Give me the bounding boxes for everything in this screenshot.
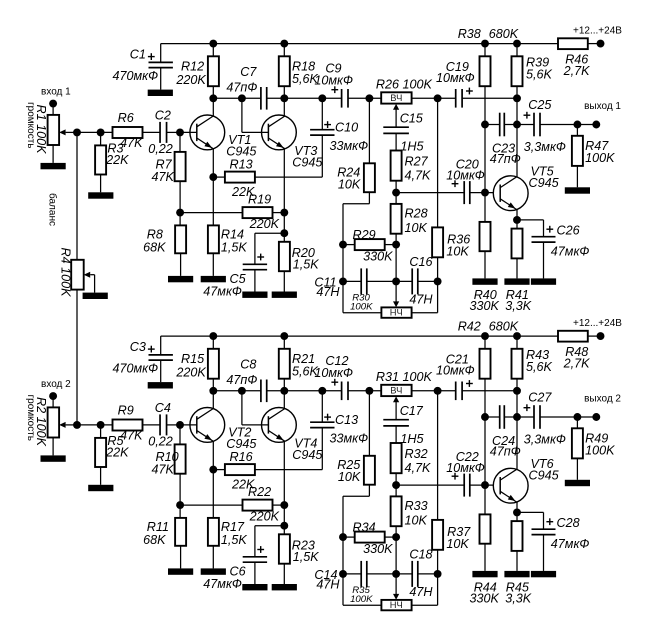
node bass row right <box>434 277 442 285</box>
resistor R16 22K <box>213 450 322 492</box>
svg-text:10мкФ: 10мкФ <box>314 366 353 380</box>
node C23 left <box>481 121 489 129</box>
svg-text:R28: R28 <box>405 207 428 221</box>
wire bass row <box>343 573 438 575</box>
resistor R43 5,6K <box>512 336 553 417</box>
node R29 right <box>392 241 400 249</box>
svg-text:R16: R16 <box>230 450 253 464</box>
transistor VT5 <box>493 165 559 211</box>
resistor R38 680K <box>458 27 519 192</box>
ground under R41 <box>504 278 529 284</box>
node VT1 collector <box>209 94 217 102</box>
node tone output <box>392 189 400 197</box>
ground under C3 <box>148 382 173 388</box>
capacitor C13 33mkF <box>310 391 368 470</box>
terminal input вход 1 <box>41 87 71 108</box>
wire row to C19 <box>412 97 456 99</box>
svg-text:R34: R34 <box>353 520 376 534</box>
capacitor C23 47pF <box>485 113 534 166</box>
svg-text:47H: 47H <box>316 285 340 299</box>
svg-text:1,5K: 1,5K <box>293 550 320 564</box>
ground under R45 <box>504 571 529 577</box>
resistor R12 220K <box>175 44 219 99</box>
resistor R42 680K <box>458 320 519 485</box>
node VT4 emitter C5 <box>280 522 288 530</box>
svg-text:R32: R32 <box>405 447 428 461</box>
svg-text:10мкФ: 10мкФ <box>314 74 353 88</box>
svg-text:2,7K: 2,7K <box>563 64 591 78</box>
node bass row left <box>339 570 347 578</box>
svg-text:10мкФ: 10мкФ <box>436 71 475 85</box>
node VT3 emitter R19 <box>280 209 288 217</box>
capacitor C24 47pF <box>485 405 534 458</box>
svg-text:47K: 47K <box>120 136 143 150</box>
svg-text:выход 1: выход 1 <box>584 101 621 112</box>
svg-text:НЧ: НЧ <box>390 307 403 318</box>
wire VT3 collector <box>283 98 285 116</box>
svg-text:C16: C16 <box>409 255 432 269</box>
terminal output выход 1 <box>584 101 621 128</box>
resistor R6 47K <box>113 111 161 150</box>
svg-text:C2: C2 <box>155 109 171 123</box>
node tone-net right top <box>434 387 442 395</box>
svg-text:330K: 330K <box>470 299 500 313</box>
svg-text:R22: R22 <box>248 485 271 499</box>
resistor R45 3,3K <box>505 521 532 606</box>
terminal +12...+24V <box>573 318 622 340</box>
capacitor C28 47mkF <box>517 512 589 571</box>
resistor R39 5,6K <box>512 44 553 125</box>
resistor R25 10K <box>337 391 375 605</box>
svg-text:+12...+24В: +12...+24В <box>573 26 622 37</box>
svg-text:10K: 10K <box>338 177 361 191</box>
svg-text:C10: C10 <box>335 121 358 135</box>
transistor VT6 <box>493 457 559 503</box>
svg-text:47K: 47K <box>152 170 175 184</box>
node VT3 emitter C5 <box>280 229 288 237</box>
wire balance column <box>76 132 78 425</box>
node R3 junction <box>97 128 105 136</box>
resistor R34 330K <box>343 520 396 556</box>
svg-text:47K: 47K <box>152 462 175 476</box>
node output junction <box>573 413 581 421</box>
node VT5 base bias <box>481 189 489 197</box>
svg-text:C4: C4 <box>155 401 171 415</box>
capacitor C8 47pF <box>226 357 266 402</box>
node VT4 collector <box>280 387 288 395</box>
svg-text:680K: 680K <box>489 320 519 334</box>
transistor VT1 <box>190 115 258 158</box>
resistor R21 5,6K <box>279 336 319 391</box>
ground at R4 wiper <box>83 293 108 299</box>
node VT4 emitter R19 <box>280 501 288 509</box>
wire +V power rail <box>161 43 601 45</box>
transistor VT2 <box>190 408 258 451</box>
node input junction <box>73 128 81 136</box>
svg-text:R19: R19 <box>248 193 271 207</box>
node feedback junction <box>176 501 184 509</box>
svg-text:R11: R11 <box>147 520 169 534</box>
capacitor C22 10mkF <box>446 450 485 497</box>
resistor R5 22K <box>95 425 129 485</box>
wire VT1 emitter <box>212 149 214 177</box>
wire input row <box>77 424 113 426</box>
wire VT3 emitter <box>283 149 285 242</box>
node C23 left <box>481 413 489 421</box>
svg-text:1H5: 1H5 <box>400 432 424 446</box>
svg-text:R8: R8 <box>147 228 163 242</box>
svg-text:C25: C25 <box>528 98 552 112</box>
capacitor C25 3,3mkF <box>524 98 597 154</box>
svg-text:C7: C7 <box>240 65 257 79</box>
svg-text:R15: R15 <box>181 352 205 366</box>
svg-text:330K: 330K <box>470 592 500 606</box>
wire tone output row <box>396 192 493 194</box>
wire input row <box>77 131 113 133</box>
ground under R49 <box>565 480 590 486</box>
svg-text:R14: R14 <box>221 228 244 242</box>
ground under R20 <box>272 292 297 298</box>
svg-text:33мкФ: 33мкФ <box>330 431 369 445</box>
wire to VT1 base <box>180 131 197 133</box>
svg-text:C13: C13 <box>335 413 358 427</box>
svg-text:R31 100K: R31 100K <box>376 370 433 384</box>
node bass row left <box>339 277 347 285</box>
svg-text:ВЧ: ВЧ <box>390 92 402 103</box>
node VT6 emitter <box>513 508 521 516</box>
svg-text:вход 1: вход 1 <box>41 87 71 98</box>
wire interstage row <box>213 390 341 392</box>
node R29 left <box>339 241 347 249</box>
svg-text:выход 2: выход 2 <box>584 394 621 405</box>
svg-text:1,5K: 1,5K <box>221 533 248 547</box>
ground under R5 <box>88 485 113 491</box>
svg-text:ВЧ: ВЧ <box>390 385 402 396</box>
svg-text:10K: 10K <box>446 245 469 259</box>
svg-text:C27: C27 <box>528 390 552 404</box>
svg-text:22K: 22K <box>105 445 129 459</box>
node tone-net right top <box>434 94 442 102</box>
svg-text:3,3K: 3,3K <box>505 592 532 606</box>
resistor R27 4,7K <box>391 151 431 193</box>
svg-text:C26: C26 <box>557 224 580 238</box>
ground under R1 <box>41 163 66 169</box>
svg-text:громкость: громкость <box>25 395 36 441</box>
node bass row mid <box>392 570 400 578</box>
svg-text:10K: 10K <box>405 221 428 235</box>
ground under R14 <box>201 276 226 282</box>
node rail junctions <box>209 332 521 340</box>
svg-text:680K: 680K <box>489 27 519 41</box>
wire VT4 emitter <box>283 441 285 534</box>
svg-text:C15: C15 <box>400 112 424 126</box>
svg-text:R42: R42 <box>458 320 481 334</box>
potentiometer R2 100K volume <box>25 395 77 456</box>
svg-text:2,7K: 2,7K <box>563 357 591 371</box>
svg-text:47H: 47H <box>409 585 433 599</box>
svg-text:47K: 47K <box>120 429 143 443</box>
svg-text:C8: C8 <box>240 357 256 371</box>
node VT2 collector <box>209 387 217 395</box>
svg-text:5,6K: 5,6K <box>526 67 553 81</box>
node output junction <box>573 121 581 129</box>
ground under R8 <box>168 276 193 282</box>
resistor R46 2,7K <box>558 38 590 78</box>
capacitor C16 47H <box>409 255 433 307</box>
svg-text:R27: R27 <box>405 155 429 169</box>
wire interstage row <box>213 97 341 99</box>
capacitor C1 470mkF <box>113 44 173 90</box>
potentiometer R30 100K bass <box>343 281 438 317</box>
wire VT5 emitter <box>516 210 518 229</box>
ground under R2 <box>41 455 66 461</box>
resistor R32 4,7K <box>391 443 431 485</box>
svg-text:10мкФ: 10мкФ <box>446 169 485 183</box>
resistor R10 47K <box>152 425 186 505</box>
node C19 to R39 <box>513 94 521 102</box>
node VT1 emitter <box>209 173 217 181</box>
wire VT4 collector <box>283 391 285 409</box>
svg-text:1,5K: 1,5K <box>221 241 248 255</box>
svg-text:47мкФ: 47мкФ <box>203 285 242 299</box>
svg-text:R26 100K: R26 100K <box>376 78 433 92</box>
resistor R28 10K <box>391 193 428 282</box>
svg-text:47пФ: 47пФ <box>226 80 257 94</box>
svg-text:3,3мкФ: 3,3мкФ <box>524 432 566 446</box>
transistor VT4 <box>262 408 324 463</box>
wire row to C19 <box>412 390 456 392</box>
svg-text:68K: 68K <box>143 241 166 255</box>
node tone-net left top <box>365 94 373 102</box>
resistor R15 220K <box>175 336 219 391</box>
svg-text:R9: R9 <box>118 403 134 417</box>
svg-text:4,7K: 4,7K <box>405 461 432 475</box>
svg-text:C3: C3 <box>130 340 146 354</box>
node C19 to R39 <box>513 387 521 395</box>
wire tone output row <box>396 484 493 486</box>
resistor R11 68K <box>143 505 186 568</box>
capacitor C12 10mkF <box>314 354 381 400</box>
resistor R29 330K <box>343 228 396 264</box>
svg-text:R12: R12 <box>181 59 204 73</box>
svg-text:47пФ: 47пФ <box>226 373 257 387</box>
capacitor C10 33mkF <box>310 98 368 177</box>
capacitor C27 3,3mkF <box>524 390 597 446</box>
resistor R49 100K <box>572 417 615 480</box>
resistor R44 330K <box>470 485 500 606</box>
capacitor C2 0,22 <box>148 109 180 157</box>
svg-text:470мкФ: 470мкФ <box>113 69 159 83</box>
node VT5 emitter <box>513 216 521 224</box>
svg-text:C945: C945 <box>292 448 323 462</box>
wire VT6 collector <box>516 417 518 469</box>
resistor R13 22K <box>213 157 322 199</box>
svg-text:R4 100K: R4 100K <box>58 248 72 298</box>
node bass row right <box>434 570 442 578</box>
svg-text:10мкФ: 10мкФ <box>436 363 475 377</box>
ground under C26 <box>531 278 556 284</box>
wire VT2 emitter <box>212 441 214 469</box>
svg-text:330K: 330K <box>363 249 393 263</box>
node VT3 base tap <box>238 94 246 102</box>
node base junction <box>176 421 184 429</box>
svg-text:47мкФ: 47мкФ <box>203 577 242 591</box>
ground under R3 <box>88 192 113 198</box>
resistor R41 3,3K <box>505 229 532 314</box>
ground under R47 <box>565 187 590 193</box>
potentiometer R1 100K volume <box>25 102 77 163</box>
svg-text:1H5: 1H5 <box>400 140 424 154</box>
svg-text:68K: 68K <box>143 533 166 547</box>
node tone output <box>392 481 400 489</box>
resistor R40 330K <box>470 193 500 314</box>
svg-text:R17: R17 <box>221 520 245 534</box>
ground under R40 <box>472 278 497 284</box>
node tone-net left top <box>365 387 373 395</box>
svg-text:100K: 100K <box>350 594 373 605</box>
resistor R24 10K <box>337 98 375 312</box>
resistor R8 68K <box>143 213 186 276</box>
node bass row mid <box>392 277 400 285</box>
resistor R47 100K <box>572 125 615 188</box>
resistor R7 47K <box>152 132 186 212</box>
svg-text:C945: C945 <box>292 156 323 170</box>
svg-text:вход 2: вход 2 <box>41 379 71 390</box>
wire VT2 collector <box>212 391 214 409</box>
svg-text:C945: C945 <box>529 469 560 483</box>
svg-text:100K: 100K <box>585 151 615 165</box>
resistor R18 5,6K <box>279 44 319 99</box>
node VT5 base bias <box>481 481 489 489</box>
node R29 left <box>339 533 347 541</box>
svg-text:3,3K: 3,3K <box>505 299 532 313</box>
node R3 junction <box>97 421 105 429</box>
svg-text:22K: 22K <box>105 153 129 167</box>
capacitor C11 47H <box>314 268 366 299</box>
wire VT1 collector <box>212 98 214 116</box>
svg-text:R33: R33 <box>405 499 428 513</box>
transistor VT3 <box>262 115 324 170</box>
svg-text:47мкФ: 47мкФ <box>551 537 590 551</box>
terminal output выход 2 <box>584 394 621 421</box>
capacitor C14 47H <box>314 561 366 592</box>
svg-text:R6: R6 <box>118 111 134 125</box>
terminal +12...+24V <box>573 26 622 48</box>
svg-text:R13: R13 <box>230 157 253 171</box>
svg-text:10K: 10K <box>338 470 361 484</box>
node VT5 collector <box>513 413 521 421</box>
wire to VT2 base <box>180 424 197 426</box>
capacitor C20 10mkF <box>446 158 485 205</box>
node input junction <box>73 421 81 429</box>
svg-text:R29: R29 <box>353 228 376 242</box>
node C13 top <box>318 387 326 395</box>
resistor R20 1,5K <box>279 242 319 292</box>
svg-text:47H: 47H <box>409 293 433 307</box>
svg-text:10K: 10K <box>405 513 428 527</box>
resistor R19 220K <box>180 193 284 232</box>
potentiometer R35 100K bass <box>343 574 438 610</box>
ground under C6 <box>242 584 267 590</box>
resistor R22 220K <box>180 485 284 524</box>
svg-text:10K: 10K <box>446 537 469 551</box>
svg-text:C28: C28 <box>557 516 580 530</box>
svg-text:НЧ: НЧ <box>390 599 403 610</box>
svg-text:470мкФ: 470мкФ <box>113 361 159 375</box>
svg-text:C18: C18 <box>409 548 432 562</box>
svg-text:4,7K: 4,7K <box>405 168 432 182</box>
capacitor C3 470mkF <box>113 336 173 382</box>
svg-text:47пФ: 47пФ <box>490 444 521 458</box>
resistor R14 1,5K <box>208 177 248 276</box>
capacitor C15 1H5 <box>383 112 424 154</box>
svg-text:C17: C17 <box>400 404 424 418</box>
potentiometer R31 100K treble <box>376 370 433 419</box>
wire VT5 collector <box>516 125 518 177</box>
wire +V power rail <box>161 335 601 337</box>
ground under R11 <box>168 568 193 574</box>
terminal input вход 2 <box>41 379 71 400</box>
svg-text:220K: 220K <box>249 217 280 231</box>
resistor R37 10K <box>432 391 471 574</box>
svg-text:47H: 47H <box>316 578 340 592</box>
resistor R9 47K <box>113 403 161 442</box>
resistor R3 22K <box>95 132 129 192</box>
ground under R17 <box>201 568 226 574</box>
svg-text:C1: C1 <box>130 47 146 61</box>
svg-text:+12...+24В: +12...+24В <box>573 318 622 329</box>
svg-text:330K: 330K <box>363 542 393 556</box>
resistor R17 1,5K <box>208 470 248 569</box>
potentiometer R26 100K treble <box>376 78 433 127</box>
capacitor C6 47mkF <box>203 526 284 591</box>
svg-text:баланс: баланс <box>46 193 58 226</box>
node R29 right <box>392 533 400 541</box>
svg-text:100K: 100K <box>585 444 615 458</box>
capacitor C7 47pF <box>226 65 266 110</box>
ground under R23 <box>272 584 297 590</box>
svg-text:R38: R38 <box>458 27 481 41</box>
svg-text:10мкФ: 10мкФ <box>446 461 485 475</box>
wire VT3 base <box>242 98 269 132</box>
wire VT6 emitter <box>516 502 518 521</box>
svg-text:220K: 220K <box>249 510 280 524</box>
resistor R33 10K <box>391 485 428 574</box>
wire VT4 base <box>242 391 269 425</box>
svg-text:громкость: громкость <box>25 102 36 148</box>
capacitor C19 10mkF <box>436 60 517 107</box>
svg-text:47мкФ: 47мкФ <box>551 245 590 259</box>
resistor R23 1,5K <box>279 534 319 584</box>
svg-text:C945: C945 <box>226 437 257 451</box>
svg-text:33мкФ: 33мкФ <box>330 139 369 153</box>
capacitor C21 10mkF <box>436 353 517 400</box>
capacitor C26 47mkF <box>517 220 589 279</box>
svg-text:220K: 220K <box>175 73 206 87</box>
wire bass row <box>343 280 438 282</box>
capacitor C5 47mkF <box>203 233 284 298</box>
svg-text:3,3мкФ: 3,3мкФ <box>524 140 566 154</box>
svg-text:5,6K: 5,6K <box>526 360 553 374</box>
ground under R44 <box>472 571 497 577</box>
svg-text:220K: 220K <box>175 365 206 379</box>
svg-text:47пФ: 47пФ <box>490 152 521 166</box>
ground under C28 <box>531 571 556 577</box>
ground under C1 <box>148 90 173 96</box>
svg-text:100K: 100K <box>350 301 373 312</box>
potentiometer R4 100K balance <box>46 193 94 297</box>
ground under C5 <box>242 292 267 298</box>
